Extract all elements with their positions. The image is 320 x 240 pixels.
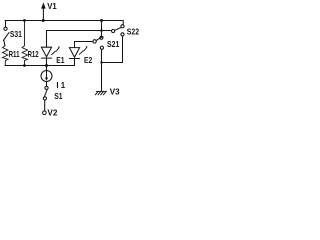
svg-text:I 1: I 1 bbox=[56, 81, 65, 90]
svg-text:V1: V1 bbox=[47, 2, 57, 11]
svg-text:S22: S22 bbox=[127, 28, 140, 37]
svg-text:V2: V2 bbox=[47, 109, 57, 118]
svg-text:S1: S1 bbox=[54, 92, 63, 101]
svg-text:R12: R12 bbox=[28, 50, 39, 59]
svg-text:V3: V3 bbox=[110, 88, 120, 97]
svg-text:S31: S31 bbox=[10, 30, 22, 39]
svg-text:E2: E2 bbox=[84, 56, 93, 65]
svg-text:R11: R11 bbox=[9, 50, 20, 59]
svg-text:S21: S21 bbox=[107, 40, 120, 49]
svg-text:E1: E1 bbox=[56, 56, 65, 65]
